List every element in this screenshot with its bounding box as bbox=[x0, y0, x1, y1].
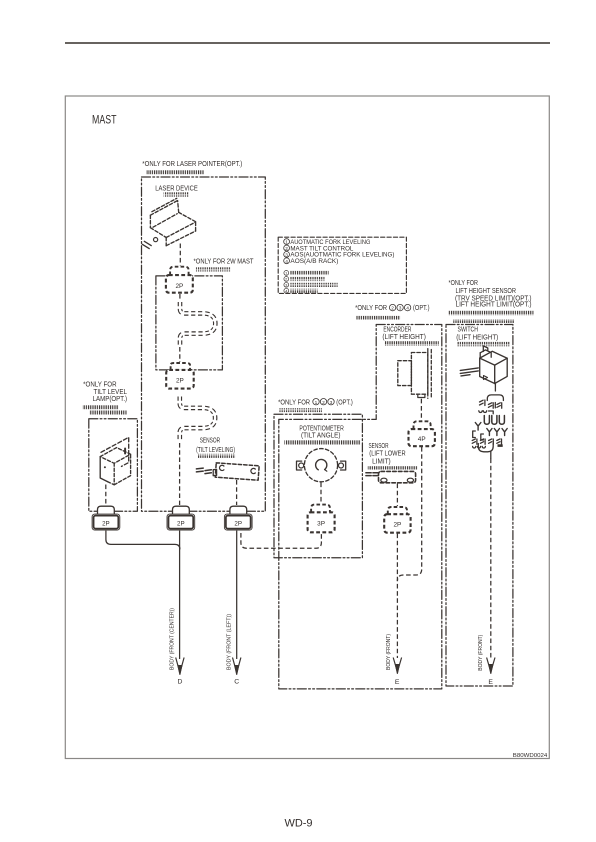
svg-text:MAST: MAST bbox=[92, 115, 117, 127]
wire lamp to 2P bbox=[105, 485, 107, 506]
svg-text:2P: 2P bbox=[175, 283, 183, 290]
sensor tilt leveling icon bbox=[196, 463, 259, 480]
connector 3P (potentiometer) bbox=[308, 505, 335, 533]
svg-text:LAMP(OPT.): LAMP(OPT.) bbox=[93, 396, 128, 403]
coiled cable 1 bbox=[180, 302, 215, 346]
svg-text:LASER DEVICE: LASER DEVICE bbox=[155, 186, 198, 193]
wire tilt sensor to 2P bbox=[236, 480, 238, 505]
svg-text:LIMIT): LIMIT) bbox=[372, 459, 391, 466]
sensor lift lower limit icon bbox=[366, 471, 416, 482]
svg-text:(LIFT HEIGHT): (LIFT HEIGHT) bbox=[382, 334, 426, 341]
connector 2P bottom #2 (solid) bbox=[167, 506, 195, 530]
svg-text:2: 2 bbox=[391, 306, 394, 312]
connector 2P bottom #3 (solid) bbox=[224, 506, 252, 530]
svg-text:E: E bbox=[488, 679, 493, 686]
svg-text:*ONLY FOR: *ONLY FOR bbox=[449, 280, 479, 287]
connector 2P (lift lower limit) bbox=[384, 507, 410, 533]
wire switch cluster down to arrow E2 bbox=[490, 459, 492, 659]
option box: ONLY FOR LASER POINTER bbox=[142, 177, 266, 511]
svg-text:*ONLY FOR LASER POINTER(OPT.): *ONLY FOR LASER POINTER(OPT.) bbox=[142, 161, 242, 168]
option box: ONLY FOR LIFT HEIGHT SENSOR/SWITCH bbox=[446, 325, 513, 687]
arrow E1 bbox=[393, 658, 401, 674]
page frame bbox=[65, 96, 549, 759]
svg-text:2P: 2P bbox=[234, 520, 242, 527]
connector 2P (2W mast lower) bbox=[166, 363, 194, 389]
connector 2P bottom-left #1 (solid) bbox=[92, 506, 120, 530]
svg-text:4: 4 bbox=[406, 306, 409, 312]
potentiometer icon bbox=[297, 449, 346, 482]
arrow D bbox=[176, 658, 184, 675]
svg-text:(TILT LEVELING): (TILT LEVELING) bbox=[196, 447, 235, 454]
svg-text:(OPT.): (OPT.) bbox=[413, 305, 430, 312]
wire 3P to 2P link bbox=[241, 533, 322, 548]
svg-text:2: 2 bbox=[285, 246, 288, 252]
svg-text:SENSOR: SENSOR bbox=[200, 438, 221, 445]
wire laser device to 2P bbox=[179, 244, 181, 266]
wire 2P to coil1 bbox=[179, 294, 181, 301]
arrow C bbox=[233, 658, 241, 675]
wire 2P down to arrow E1 bbox=[396, 534, 398, 659]
wire encoder to 4P bbox=[420, 399, 422, 421]
svg-text:4P: 4P bbox=[418, 436, 426, 443]
svg-text:LIFT HEIGHT SENSOR: LIFT HEIGHT SENSOR bbox=[456, 288, 517, 295]
svg-text:(OPT.): (OPT.) bbox=[336, 399, 353, 406]
svg-text:BODY (FRONT (CENTER)): BODY (FRONT (CENTER)) bbox=[170, 608, 176, 670]
wire lift lower sensor to 2P bbox=[396, 484, 398, 507]
svg-text:(LIFT HEIGHT): (LIFT HEIGHT) bbox=[456, 335, 498, 342]
wire 4P down join E bbox=[397, 447, 421, 581]
svg-text:(LIFT LOWER: (LIFT LOWER bbox=[369, 451, 405, 458]
wire coil1 to 2P (2w lower) bbox=[179, 347, 181, 362]
svg-text:BODY (FRONT): BODY (FRONT) bbox=[386, 634, 392, 670]
svg-text:3: 3 bbox=[399, 306, 402, 312]
wire C vertical bbox=[236, 531, 238, 659]
legend box bbox=[278, 237, 406, 293]
svg-text:4: 4 bbox=[285, 259, 288, 265]
svg-text:E: E bbox=[395, 679, 400, 686]
svg-text:C: C bbox=[234, 679, 239, 686]
svg-text:BODY (FRONT): BODY (FRONT) bbox=[478, 635, 484, 671]
svg-text:LIFT HEIGHT LIMIT(OPT.): LIFT HEIGHT LIMIT(OPT.) bbox=[456, 302, 532, 309]
top rule bbox=[65, 42, 550, 44]
arrow E2 bbox=[487, 658, 495, 674]
svg-text:WD-9: WD-9 bbox=[284, 818, 312, 830]
connector 2P (2W mast upper) bbox=[166, 267, 193, 293]
svg-text:*ONLY FOR: *ONLY FOR bbox=[83, 382, 117, 389]
option box: ONLY FOR TILT LEVEL LAMP bbox=[89, 419, 138, 512]
legend entries english bbox=[284, 239, 290, 264]
legend entries japanese bbox=[284, 271, 289, 294]
svg-text:2P: 2P bbox=[102, 520, 110, 527]
option box: ONLY FOR 2W MAST bbox=[156, 276, 223, 370]
svg-text:(TILT ANGLE): (TILT ANGLE) bbox=[301, 432, 341, 439]
svg-text:*ONLY FOR: *ONLY FOR bbox=[355, 305, 387, 312]
wire potentiometer to 3P bbox=[320, 483, 322, 504]
svg-text:2P: 2P bbox=[176, 378, 184, 385]
svg-text:3: 3 bbox=[330, 400, 333, 406]
svg-text:3: 3 bbox=[285, 253, 288, 259]
svg-text:BODY (FRONT (LEFT)): BODY (FRONT (LEFT)) bbox=[227, 614, 233, 670]
svg-text:1: 1 bbox=[315, 400, 318, 406]
wire 2P1 to D merge bbox=[106, 531, 180, 550]
wire coil2 to 2P bottom-left bbox=[179, 443, 181, 505]
svg-text:3P: 3P bbox=[317, 521, 325, 528]
svg-text:*ONLY FOR: *ONLY FOR bbox=[278, 399, 310, 406]
svg-text:SWITCH: SWITCH bbox=[458, 327, 479, 334]
svg-text:POTENTIOMETER: POTENTIOMETER bbox=[299, 425, 343, 432]
svg-text:ENCORDER: ENCORDER bbox=[383, 326, 411, 333]
tilt level lamp icon bbox=[100, 437, 130, 485]
encoder icon bbox=[398, 349, 432, 399]
connector 4P (encoder) bbox=[409, 421, 435, 446]
option box: ONLY FOR 123 (potentiometer) bbox=[274, 414, 362, 558]
svg-text:B80WD0024: B80WD0024 bbox=[513, 753, 548, 759]
svg-text:SENSOR: SENSOR bbox=[369, 443, 389, 450]
svg-text:2P: 2P bbox=[177, 520, 185, 527]
wire D vertical bbox=[179, 531, 181, 659]
svg-text:2: 2 bbox=[322, 400, 325, 406]
svg-text:2P: 2P bbox=[393, 522, 401, 529]
laser device icon bbox=[142, 198, 195, 248]
switch lift height icon bbox=[460, 346, 507, 384]
switch terminal cluster bbox=[472, 384, 507, 459]
svg-text:*ONLY FOR 2W MAST: *ONLY FOR 2W MAST bbox=[194, 258, 255, 265]
svg-text:1: 1 bbox=[285, 240, 288, 246]
svg-text:AOS(A/B RACK): AOS(A/B RACK) bbox=[290, 258, 338, 265]
svg-text:D: D bbox=[177, 679, 182, 686]
coiled cable 2 bbox=[180, 397, 215, 441]
option box: ONLY FOR 234 (encoder, L-shape) bbox=[279, 325, 442, 689]
